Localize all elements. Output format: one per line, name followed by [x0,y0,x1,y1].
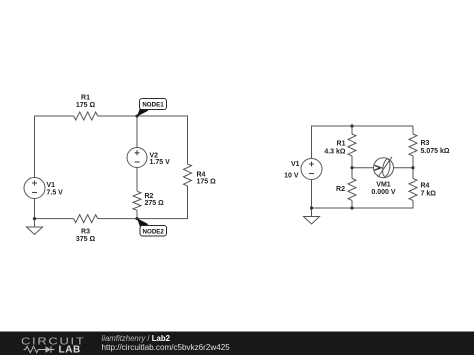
svg-text:175 Ω: 175 Ω [197,179,217,186]
VM1 arrow glyph [375,165,381,170]
junction ground-right [310,206,313,209]
logo resistor zigzag [24,346,41,352]
svg-text:NODE2: NODE2 [143,228,165,235]
voltmeter VM1 [374,157,394,178]
V2 plus sign [135,150,140,155]
wire bottom rail [312,200,414,208]
voltage source V1 right [301,159,322,180]
wire top rail [312,126,414,159]
svg-text:R1: R1 [337,140,346,147]
node NODE2 flag [137,218,167,236]
resistor R3 [74,215,98,223]
svg-text:R2: R2 [145,193,154,200]
resistor R3 [409,134,417,156]
svg-text:liamfitzhenry / Lab2: liamfitzhenry / Lab2 [102,334,171,343]
V1 minus sign [32,192,37,194]
wire R2 to NODE2 [136,210,138,218]
wire V1 to ground node [34,199,36,228]
V1 right minus sign [309,173,314,175]
V1 right plus sign [309,162,314,167]
wire mid to R2 [351,168,353,179]
junction NODE1 [135,114,138,117]
wire R1 to mid node [351,156,353,168]
svg-text:V1: V1 [291,161,300,168]
voltage source V2 [127,148,147,168]
svg-text:R1: R1 [81,95,90,102]
svg-text:0.000 V: 0.000 V [371,189,395,196]
wire mid-left to voltmeter [352,167,374,169]
svg-text:375 Ω: 375 Ω [76,236,96,243]
resistor R4 [409,179,417,201]
wire voltmeter to mid-right [394,167,414,169]
wire right-bottom segment [137,186,188,219]
svg-text:V1: V1 [47,182,56,189]
svg-text:7 kΩ: 7 kΩ [421,191,437,198]
junction mid-left [350,166,353,169]
svg-text:LAB: LAB [59,344,81,355]
junction NODE2 [135,217,138,220]
svg-text:R3: R3 [81,229,90,236]
junction ground-left [33,217,36,220]
node NODE1 flag [137,99,167,117]
wire mid branch upper [136,116,138,148]
resistor R4 [184,164,192,186]
svg-text:http://circuitlab.com/c5bvkz6r: http://circuitlab.com/c5bvkz6r2w425 [102,343,231,352]
svg-text:10 V: 10 V [284,172,299,179]
svg-text:VM1: VM1 [376,182,391,189]
junction bottom branch [350,206,353,209]
ground [27,227,43,235]
junction mid-right [411,166,414,169]
wire top-left segment [35,116,74,178]
wire R1 top lead [351,126,353,134]
wire R2 to bottom [351,200,353,208]
svg-text:NODE1: NODE1 [142,102,164,109]
wire V2 to R2 [136,168,138,192]
svg-text:R4: R4 [197,172,206,179]
resistor R1 [74,112,98,120]
logo diode [41,346,55,352]
resistor R2 [348,179,356,201]
svg-text:R2: R2 [336,186,345,193]
voltage source V1 [24,178,45,199]
svg-text:R3: R3 [421,140,430,147]
V1 plus sign [32,181,37,186]
svg-text:5.075 kΩ: 5.075 kΩ [421,148,450,155]
resistor R2 [133,191,141,210]
wire right rail top [412,126,414,134]
svg-text:4.3 kΩ: 4.3 kΩ [324,148,346,155]
wire bottom-mid segment [98,218,137,220]
V2 minus sign [135,161,140,163]
wire R3 to mid node [412,156,414,168]
svg-text:7.5 V: 7.5 V [47,190,64,197]
svg-text:1.75 V: 1.75 V [150,159,171,166]
svg-text:175 Ω: 175 Ω [76,102,96,109]
wire bottom-left segment [35,218,74,220]
wire mid to R4 [412,168,414,179]
junction top branch [350,124,353,127]
wire top-right segment [137,116,188,164]
wire top-mid segment to NODE1 [98,115,137,117]
svg-text:R4: R4 [421,183,430,190]
resistor R1 [348,134,356,156]
wire V1 bottom [311,180,313,217]
svg-text:275 Ω: 275 Ω [145,200,165,207]
ground right [304,217,320,225]
